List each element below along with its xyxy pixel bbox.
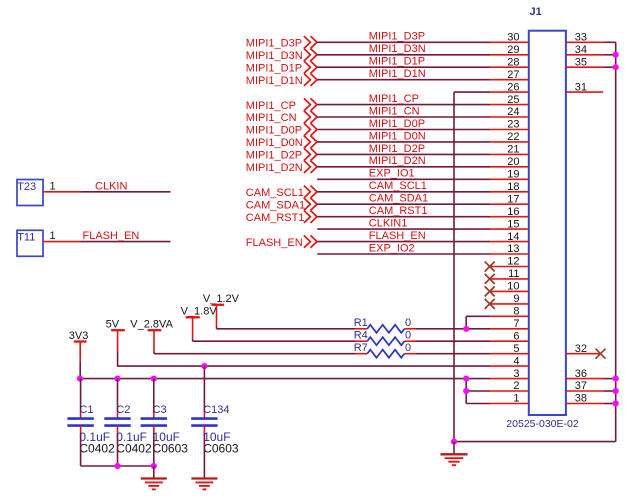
svg-text:34: 34 [575,44,587,56]
junction pin3 branch [463,376,469,382]
junction 3V3 rail C1 [77,376,83,382]
wire pin 27 net MIPI1_D1N [317,79,490,81]
svg-text:24: 24 [507,106,519,118]
svg-text:33: 33 [575,32,587,44]
wire C1 lower lead [80,433,82,466]
wire pin 2 [466,390,490,392]
junction 5V rail C134 [201,363,207,369]
wire 5V stem to rail [117,351,119,366]
svg-text:21: 21 [507,144,519,156]
svg-text:5V: 5V [106,318,120,330]
wire pin 6 resistor lead right [416,340,490,342]
svg-text:18: 18 [507,181,519,193]
off-page connector MIPI1_D0N [304,136,311,148]
wire pin 31 stub [566,91,603,93]
capacitor C1 [80,379,82,412]
svg-text:J1: J1 [530,6,542,18]
svg-text:15: 15 [507,218,519,230]
connector J1 body [529,31,566,415]
junction pin 37 [613,388,619,394]
svg-text:MIPI1_CN: MIPI1_CN [246,112,297,124]
svg-text:28: 28 [507,56,519,68]
svg-text:MIPI1_D3N: MIPI1_D3N [246,50,303,62]
svg-text:35: 35 [575,56,587,68]
wire pin 8 branch from R1 net [466,315,490,317]
svg-text:MIPI1_CP: MIPI1_CP [369,93,419,105]
wire pin26 vertical to GND [453,92,455,442]
wire branch pins 3-2-1 [465,379,467,404]
svg-text:8: 8 [513,306,519,318]
svg-text:38: 38 [575,393,587,405]
svg-text:FLASH_EN: FLASH_EN [246,237,303,249]
ground GND3 under C134 [191,477,217,479]
svg-text:MIPI1_D0N: MIPI1_D0N [369,130,426,142]
wire pin 14 net FLASH_EN [317,241,490,243]
junction pin 36 [613,376,619,382]
wire pin 28 net MIPI1_D1P [317,66,490,68]
wire pin 13 net EXP_IO2 [317,253,490,255]
svg-text:R1: R1 [354,317,368,329]
svg-text:MIPI1_D1N: MIPI1_D1N [369,68,426,80]
wire pin 30 net MIPI1_D3P [317,41,490,43]
wire pin 29 net MIPI1_D3N [317,54,490,56]
junction GND rail [451,439,457,445]
svg-text:CLKIN: CLKIN [95,181,127,193]
svg-text:CAM_RST1: CAM_RST1 [246,212,305,224]
svg-text:7: 7 [513,318,519,330]
capacitor C2 [117,379,119,412]
svg-text:MIPI1_D0P: MIPI1_D0P [369,118,425,130]
svg-text:C134: C134 [203,404,229,416]
svg-text:4: 4 [513,355,519,367]
wire C2 lower lead [117,433,119,466]
wire pin 3 net 3V3 rail [80,378,490,380]
svg-text:MIPI1_D2P: MIPI1_D2P [246,150,302,162]
svg-text:13: 13 [507,243,519,255]
junction pin7/pin8 [463,326,469,332]
svg-text:19: 19 [507,169,519,181]
wire bottom GND rail [454,441,616,443]
wire V_1.8V to R4 [192,338,194,341]
svg-text:29: 29 [507,44,519,56]
svg-text:CAM_SDA1: CAM_SDA1 [369,193,428,205]
wire pin 37 [566,390,604,392]
svg-text:MIPI1_CN: MIPI1_CN [369,105,420,117]
wire C134 lower lead [203,433,205,479]
off-page connector CAM_RST1 [304,211,311,223]
capacitor C134 [203,366,205,412]
svg-text:FLASH_EN: FLASH_EN [83,230,140,242]
wire pin 33 [566,41,604,43]
svg-text:30: 30 [507,32,519,44]
junction C3 bottom [151,463,157,469]
svg-text:2: 2 [513,380,519,392]
wire pin 5 resistor lead right [416,353,490,355]
wire pin 25 net MIPI1_CP [317,104,490,106]
svg-text:20525-030E-02: 20525-030E-02 [506,418,579,430]
no-connect pin 32 [566,353,600,355]
wire pin 26 to GND vertical [454,91,490,93]
svg-text:27: 27 [507,69,519,81]
svg-text:T11: T11 [17,232,35,244]
junction pin 34 [613,52,619,58]
svg-text:MIPI1_D0N: MIPI1_D0N [246,137,303,149]
svg-text:32: 32 [575,343,587,355]
junction rail C2 [114,376,120,382]
wire pin 4 net 5V rail [117,365,490,367]
junction pin 35 [613,64,619,70]
junction C2 bottom [114,463,120,469]
svg-text:R7: R7 [354,342,368,354]
wire pin 34 [566,54,604,56]
svg-text:26: 26 [507,81,519,93]
wire right vertical bus [615,42,617,441]
wire pin 35 [566,66,604,68]
wire pin 38 [566,403,604,405]
resistor R1 [355,328,367,330]
svg-text:1: 1 [513,393,519,405]
svg-text:16: 16 [507,206,519,218]
svg-text:CAM_SDA1: CAM_SDA1 [246,199,305,211]
junction pin 38 [613,400,619,406]
svg-text:C3: C3 [153,404,167,416]
svg-text:MIPI1_CP: MIPI1_CP [246,100,296,112]
junction pin2 branch [463,388,469,394]
off-page connector MIPI1_D1N [304,74,311,86]
svg-text:MIPI1_D3P: MIPI1_D3P [246,38,302,50]
svg-text:CAM_SCL1: CAM_SCL1 [246,187,304,199]
svg-text:R4: R4 [354,330,368,342]
wire V_1.2V to R1 [216,326,218,329]
svg-text:1: 1 [50,230,56,242]
svg-text:5: 5 [513,343,519,355]
svg-text:FLASH_EN: FLASH_EN [369,230,426,242]
svg-text:MIPI1_D1P: MIPI1_D1P [369,56,425,68]
off-page connector MIPI1_CP [304,98,311,110]
svg-text:9: 9 [513,293,519,305]
wire port T23 CLKIN [43,191,81,193]
off-page connector MIPI1_D0P [304,123,311,135]
off-page connector FLASH_EN [304,235,311,247]
svg-text:MIPI1_D2N: MIPI1_D2N [369,155,426,167]
off-page connector CAM_SDA1 [304,198,311,210]
svg-text:10: 10 [507,281,519,293]
junction rail C3 [151,376,157,382]
svg-text:1: 1 [50,181,56,193]
svg-text:23: 23 [507,119,519,131]
svg-text:0: 0 [405,342,411,354]
off-page connector CAM_SCL1 [304,186,311,198]
svg-text:36: 36 [575,368,587,380]
off-page connector MIPI1_D2N [304,161,311,173]
resistor R4 [355,340,367,342]
svg-text:20: 20 [507,156,519,168]
ground GND2 under C3 [153,466,155,479]
svg-text:25: 25 [507,94,519,106]
no-connect pin 12 [490,266,529,268]
wire pin 19 net EXP_IO1 [317,178,490,180]
off-page connector MIPI1_D1P [304,61,311,73]
svg-text:11: 11 [508,268,519,280]
svg-text:CAM_RST1: CAM_RST1 [369,205,428,217]
svg-text:22: 22 [507,131,519,143]
capacitor C3 [153,379,155,412]
svg-text:MIPI1_D3P: MIPI1_D3P [369,31,425,43]
svg-text:6: 6 [513,330,519,342]
wire pin 36 [566,378,604,380]
svg-text:37: 37 [575,380,587,392]
svg-text:14: 14 [507,231,519,243]
svg-text:T23: T23 [17,181,36,193]
svg-text:EXP_IO2: EXP_IO2 [369,242,415,254]
svg-text:V_1.2V: V_1.2V [203,293,240,305]
wire pin 17 net CAM_SDA1 [317,203,490,205]
resistor R7 [355,353,367,355]
svg-text:C0603: C0603 [203,442,239,456]
wire pin 22 net MIPI1_D0N [317,141,490,143]
svg-text:V_1.8V: V_1.8V [181,305,218,317]
svg-text:0: 0 [405,330,411,342]
svg-text:CLKIN1: CLKIN1 [369,218,408,230]
off-page connector MIPI1_D2P [304,148,311,160]
svg-text:MIPI1_D2P: MIPI1_D2P [369,143,425,155]
wire V_2.8VA to R7 [153,351,155,354]
no-connect pin 10 [490,290,529,292]
svg-text:MIPI1_D2N: MIPI1_D2N [246,162,303,174]
port T23 box [17,180,43,206]
wire pin 15 net CLKIN1 [317,228,490,230]
wire 3V3 stem [79,363,81,379]
svg-text:12: 12 [507,256,519,268]
svg-text:31: 31 [575,81,587,93]
wire pin 16 net CAM_RST1 [317,216,490,218]
wire pin 21 net MIPI1_D2P [317,153,490,155]
off-page connector MIPI1_D3P [304,36,311,48]
no-connect pin 11 [490,278,529,280]
svg-text:MIPI1_D0P: MIPI1_D0P [246,125,302,137]
svg-text:C0402: C0402 [79,442,115,456]
svg-text:MIPI1_D1N: MIPI1_D1N [246,75,303,87]
svg-text:C1: C1 [79,404,93,416]
wire pin 24 net MIPI1_CN [317,116,490,118]
off-page connector MIPI1_CN [304,111,311,123]
svg-text:V_2.8VA: V_2.8VA [130,318,173,330]
svg-text:C0402: C0402 [116,442,152,456]
wire pin 7 resistor lead right [416,328,490,330]
off-page connector MIPI1_D3N [304,49,311,61]
ground GND1 right [453,442,455,455]
wire pin 1 [466,403,490,405]
svg-text:17: 17 [507,193,519,205]
svg-text:EXP_IO1: EXP_IO1 [369,168,415,180]
wire pin 18 net CAM_SCL1 [317,191,490,193]
svg-text:3: 3 [513,368,519,380]
svg-text:0: 0 [405,317,411,329]
svg-text:CAM_SCL1: CAM_SCL1 [369,180,427,192]
svg-text:MIPI1_D1P: MIPI1_D1P [246,62,302,74]
svg-text:C0603: C0603 [153,442,189,456]
svg-text:C2: C2 [116,404,130,416]
wire C3 lower lead [153,433,155,466]
wire port T11 FLASH_EN [43,241,81,243]
svg-text:MIPI1_D3N: MIPI1_D3N [369,43,426,55]
port T11 box [17,230,43,256]
wire pin 23 net MIPI1_D0P [317,129,490,131]
no-connect pin 9 [490,303,529,305]
wire pin 20 net MIPI1_D2N [317,166,490,168]
